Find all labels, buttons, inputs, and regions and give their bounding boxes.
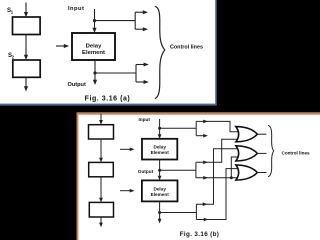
box C step (b) — [89, 202, 113, 217]
box: delay element 1 (b) — [142, 139, 177, 160]
figure (b) orange top border — [77, 113, 320, 115]
wire: OR2 output — [257, 152, 266, 154]
box S1 step — [13, 17, 41, 35]
wire: output tap to fork 2 (b) — [160, 169, 196, 171]
wire: input line into delay element 1 — [158, 119, 162, 139]
arrow: maps-to between chain and delay element — [56, 44, 69, 48]
or-gate G3 — [236, 165, 257, 180]
wire: arrow out of box C — [99, 217, 103, 227]
svg-text:Delay: Delay — [153, 145, 166, 150]
svg-text:Output: Output — [138, 169, 154, 174]
wire: arrow out of box S2 — [24, 77, 28, 91]
wire: arrow box A to box B — [99, 139, 103, 162]
wire: fork2 bottom arm with arrow, runs to OR3 lower input — [196, 176, 239, 180]
figure (a) blue right border — [215, 0, 217, 105]
fork bar: fork 3 (b) — [195, 204, 197, 219]
label S1 — [7, 8, 14, 15]
wire: fork2 top arm with arrow, runs up to OR1 lower input — [196, 139, 239, 164]
wire: arrow into box S1 — [24, 3, 28, 18]
figure (a) blue bottom border — [0, 104, 217, 106]
wire: arrow into box A — [99, 114, 103, 125]
wire: output tap to fork (a) — [95, 72, 136, 74]
wire: branch up to OR2 lower input — [231, 157, 239, 178]
wire: OR1 output — [257, 133, 266, 135]
svg-text:Delay: Delay — [153, 186, 166, 191]
svg-text:Element: Element — [151, 192, 170, 197]
wire: output fork bottom arm arrow (a) — [136, 80, 149, 84]
arrow: maps-to chain to delay element 2 — [120, 189, 135, 193]
wire: fork1 top arm with arrow, runs to OR1 upper input — [196, 120, 239, 132]
wire: input tap to fork (a) — [95, 20, 136, 22]
wire: fork3 bottom arm with arrow, runs up to OR3 upper input — [196, 169, 239, 222]
node: output tap junction (b) — [158, 169, 161, 172]
wire: OR3 output — [257, 172, 266, 174]
wire: input line into delay element — [92, 9, 96, 33]
label delay element 2 — [151, 186, 170, 197]
wire: output line from delay element (a) — [93, 60, 97, 85]
wire: delay1 to delay2 chain line — [158, 160, 162, 181]
figure (b) orange left border — [77, 113, 79, 240]
svg-text:Fig. 3.16 (b): Fig. 3.16 (b) — [180, 231, 220, 238]
svg-text:Input: Input — [68, 6, 84, 12]
fork bar: fork 1 (b) — [195, 121, 197, 135]
fork bar: fork 2 (b) — [195, 162, 197, 178]
svg-text:Element: Element — [82, 50, 105, 56]
svg-text:Output: Output — [68, 82, 86, 88]
label delay element (a) — [82, 43, 105, 56]
svg-text:Control lines: Control lines — [170, 44, 203, 50]
figure (b) panel — [77, 112, 320, 240]
wire: arrow box B to box C — [99, 177, 103, 203]
brace: control lines group (b) — [268, 125, 274, 176]
svg-text:Control lines: Control lines — [282, 150, 311, 155]
node: output tap junction (a) — [93, 71, 96, 74]
box A step (b) — [89, 125, 114, 139]
or-gate G1 — [236, 127, 257, 142]
svg-text:Element: Element — [151, 150, 170, 155]
node: input tap junction (b) — [158, 127, 161, 130]
wire: input tap to fork 1 (b) — [160, 127, 197, 129]
box S2 step — [13, 60, 40, 77]
label delay element 1 — [151, 145, 170, 156]
box: delay element 2 (b) — [142, 180, 178, 201]
wire: fork3 top arm with arrow, runs up to OR2 upper input — [196, 149, 239, 206]
arrow: maps-to chain to delay element 1 — [120, 148, 135, 152]
figure (a) panel — [0, 0, 217, 105]
wire: output fork top arm arrow (a) — [136, 63, 149, 67]
svg-text:Fig. 3.16 (a): Fig. 3.16 (a) — [85, 95, 131, 102]
wire: line below delay element 2 with arrow — [158, 201, 162, 223]
wire: fork bottom arm arrow (a) — [135, 27, 148, 31]
brace: control lines group (a) — [155, 6, 165, 98]
wire: fork1 bottom arm arrow (dangling) — [196, 134, 208, 138]
node: end tap junction (b) — [158, 211, 161, 214]
box: delay element (a) — [72, 33, 115, 60]
wire: fork top arm arrow (a) — [135, 10, 148, 14]
svg-text:Delay: Delay — [86, 43, 102, 49]
node: junction on fork2 bottom arm — [230, 176, 233, 179]
label S2 — [8, 53, 15, 60]
wire: arrow S1 box to S2 box — [24, 35, 28, 61]
box B step (b) — [89, 162, 114, 176]
svg-text:Input: Input — [139, 117, 151, 122]
fork bar: input control fork (a) — [134, 12, 136, 29]
wire: end tap to fork 3 (b) — [160, 212, 197, 214]
or-gate G2 — [236, 146, 257, 161]
node: input tap junction (a) — [93, 19, 96, 22]
fork bar: output control fork (a) — [135, 65, 137, 83]
